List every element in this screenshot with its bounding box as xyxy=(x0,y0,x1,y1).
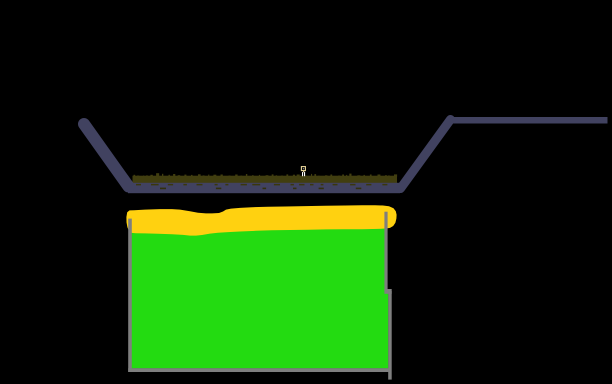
grey border step xyxy=(384,289,391,294)
grey border right upper xyxy=(384,212,387,291)
green block xyxy=(132,215,389,368)
trench bottom navy line xyxy=(128,183,400,193)
grey border bottom xyxy=(128,368,388,372)
right bank slope xyxy=(401,120,451,189)
yellow band xyxy=(126,205,396,235)
grey border right lower xyxy=(388,291,392,380)
grey border left xyxy=(128,219,132,372)
figure head square xyxy=(301,167,305,171)
figure head dot xyxy=(303,168,304,169)
figure neck xyxy=(303,171,304,172)
figure legs xyxy=(302,172,303,176)
top right ground line xyxy=(450,117,608,124)
grass tufts xyxy=(134,173,398,177)
grass olive band xyxy=(133,176,398,183)
olive dashes on navy xyxy=(136,184,387,189)
left bank slope xyxy=(84,124,129,187)
